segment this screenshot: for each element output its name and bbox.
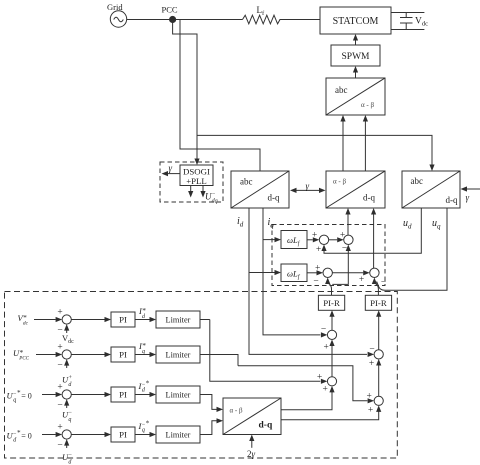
row1 summing junction SR1	[62, 315, 71, 324]
svg-text:+: +	[367, 392, 372, 402]
arrowhead row4 to U5	[217, 418, 224, 423]
arrowhead S1 to S2	[337, 237, 344, 242]
wire SA output to PI-R1	[331, 317, 333, 331]
arrowhead PIR1 to S3	[325, 278, 330, 285]
wire grid to inductor	[127, 19, 243, 21]
arrowhead U5 to SE	[329, 386, 334, 393]
arrowhead PLL down2	[200, 191, 205, 198]
summing junction S1	[319, 235, 328, 244]
svg-text:d-q: d-q	[363, 193, 375, 203]
row3 wire PI to Limiter	[135, 394, 150, 396]
row2 wire PI to Limiter	[135, 354, 150, 356]
STATCOM box	[320, 7, 391, 34]
wire 2gamma input	[251, 441, 253, 448]
svg-text:PI: PI	[119, 350, 127, 360]
arrowhead 2gamma to U5	[249, 435, 254, 442]
arrowheads row refs into summers	[56, 317, 63, 322]
arrowhead SE to SA	[329, 340, 334, 347]
wire U2 output up left	[342, 121, 344, 171]
row2 feedback stub	[66, 366, 68, 369]
SPWM box	[331, 45, 380, 66]
summing junction SE	[327, 377, 336, 386]
wire STATCOM to capacitor bottom	[391, 29, 424, 31]
svg-text:+PLL: +PLL	[186, 176, 207, 186]
row4 wire SR4 to PI	[71, 434, 104, 436]
wire S3 to S4	[332, 272, 363, 274]
svg-text:+: +	[340, 231, 345, 241]
svg-text:PI: PI	[119, 315, 127, 325]
svg-text:−: −	[57, 326, 62, 336]
arrowhead gamma double left	[290, 188, 297, 193]
svg-text:Limiter: Limiter	[166, 431, 191, 440]
outer control dashed enclosure	[5, 292, 398, 459]
svg-text:abc: abc	[335, 85, 348, 95]
svg-text:γ: γ	[169, 163, 173, 173]
wire uq feedforward from U3 to S4	[377, 208, 447, 290]
arrowhead branch to S2	[346, 245, 351, 252]
svg-text:abc: abc	[411, 176, 424, 186]
row1 feedback stub	[66, 331, 68, 334]
row2 PI box	[111, 347, 135, 362]
transform U5 alpha-beta to d-q bottom box	[223, 398, 281, 435]
wire S4 output up into U2	[373, 215, 375, 269]
svg-text:PI-R: PI-R	[323, 298, 340, 308]
arrowhead gamma into U3	[461, 186, 468, 191]
row1 reference wire	[34, 319, 56, 321]
arrowhead U4 to SPWM	[353, 66, 358, 73]
row1 PI box	[111, 312, 135, 327]
wire PLL down output 2	[202, 186, 204, 193]
wire SE output to SA	[331, 346, 333, 377]
svg-text:−: −	[57, 401, 62, 411]
svg-text:+: +	[359, 275, 364, 285]
arrowheads PI to Limiter	[150, 317, 157, 322]
svg-text:+: +	[312, 231, 317, 241]
wire SB output to PI-R2	[378, 317, 380, 350]
arrowhead PCC to U3 top	[429, 165, 434, 172]
arrowhead U5 to SF	[376, 405, 381, 412]
row2 Limiter box	[156, 346, 200, 363]
arrowhead PCC to DSOGI	[194, 159, 199, 166]
PI-R controller box 1	[318, 295, 344, 310]
capacitor Cdc	[400, 13, 413, 30]
grid source G1	[110, 11, 126, 27]
wire PI-R1 output to S3	[328, 283, 332, 295]
wire PI-R1 branch to S2	[332, 249, 348, 284]
row1 limiter output corner	[200, 319, 210, 321]
svg-text:−: −	[321, 325, 326, 335]
svg-text:+: +	[315, 264, 320, 274]
wire gamma into U3	[465, 188, 480, 190]
svg-text:−: −	[313, 277, 318, 287]
arrowhead SB to PIR2	[376, 310, 381, 317]
svg-text:PI: PI	[119, 430, 127, 440]
svg-text:d-q: d-q	[259, 421, 273, 431]
row3 summing junction SR3	[62, 390, 71, 399]
row3 feedback stub	[66, 406, 68, 409]
arrowhead PLL down1	[188, 191, 193, 198]
arrowhead S3 to S4	[363, 270, 370, 275]
feedforward dashed enclosure	[272, 225, 385, 286]
arrowhead wL1 to S1	[313, 237, 320, 242]
svg-text:PI: PI	[119, 390, 127, 400]
row4 PI box	[111, 427, 135, 442]
svg-text:DSOGI: DSOGI	[183, 167, 210, 177]
row3 Limiter box	[156, 386, 200, 403]
svg-text:Limiter: Limiter	[166, 391, 191, 400]
row4 reference wire	[42, 434, 56, 436]
svg-text:PI-R: PI-R	[370, 298, 387, 308]
svg-text:d-q: d-q	[446, 195, 458, 205]
DSOGI dashed enclosure	[160, 162, 223, 202]
svg-text:−: −	[381, 278, 386, 288]
arrowhead S2 to U2	[345, 208, 350, 215]
row3 reference wire	[42, 394, 56, 396]
PI-R controller box 2	[365, 295, 391, 310]
wire PCC horizontal to right transform	[197, 135, 432, 165]
arrowhead U2 to U4 left	[340, 115, 345, 122]
wire U4 to SPWM	[355, 71, 357, 78]
svg-text:−: −	[57, 361, 62, 371]
svg-text:abc: abc	[240, 177, 253, 187]
wire row1 limiter long route to SE	[210, 320, 321, 382]
svg-text:+: +	[316, 245, 321, 255]
wire U5 upper output to SE bottom	[281, 392, 332, 410]
wire SF output to SB	[378, 365, 380, 396]
wire S1 to S2	[329, 239, 338, 241]
arrowhead SPWM to STATCOM	[353, 34, 358, 41]
transform U2 alpha-beta to d-q box middle	[326, 171, 385, 208]
arrowhead id to SB	[368, 352, 375, 357]
arrowhead S4 to U2	[371, 208, 376, 215]
row4 Limiter box	[156, 426, 200, 443]
row1 Limiter box	[156, 311, 200, 328]
arrowhead SF to SB	[376, 359, 381, 366]
row2 limiter output corner	[200, 355, 238, 366]
row1 wire SR1 to PI	[71, 319, 104, 321]
row4 feedback stub	[66, 446, 68, 449]
arrowhead gamma double right	[319, 188, 326, 193]
row4 summing junction SR4	[62, 430, 71, 439]
svg-text:α - β: α - β	[361, 101, 374, 109]
row3 limiter output to U5	[200, 395, 217, 410]
svg-text:Grid: Grid	[107, 2, 123, 12]
wire PCC branch left vertical	[180, 20, 260, 172]
svg-text:+: +	[369, 359, 374, 369]
arrowhead ud to S1	[321, 245, 326, 252]
svg-text:α - β: α - β	[230, 407, 243, 415]
svg-text:α - β: α - β	[333, 178, 346, 186]
row2 reference wire	[36, 354, 56, 356]
row4 limiter output to U5	[200, 421, 217, 435]
row1 wire PI to Limiter	[135, 319, 150, 321]
summing junction S2	[344, 235, 353, 244]
svg-text:d-q: d-q	[268, 193, 280, 203]
wire PI-R2 output to S4	[375, 283, 379, 295]
wire iq branch into wL1	[263, 239, 275, 241]
arrowhead U2 to U4 right	[363, 115, 368, 122]
summing junction S3	[323, 268, 332, 277]
wire S2 output up into U2	[347, 215, 349, 236]
summing junction SA	[327, 330, 336, 339]
svg-text:γ: γ	[306, 181, 310, 191]
arrowhead row3 to U5	[217, 407, 224, 412]
wire ud feedforward from U3 to S1	[324, 208, 421, 253]
wire gamma double arrow between U1 and U2	[294, 189, 321, 191]
transform U1 abc to d-q box left	[231, 171, 289, 208]
DSOGI+PLL box	[180, 165, 213, 186]
wire gamma output of PLL	[166, 173, 180, 175]
wire wL2 to S3	[307, 272, 317, 274]
svg-text:SPWM: SPWM	[342, 52, 371, 62]
gain block wL2	[281, 264, 307, 282]
arrowhead wL2 to S3	[317, 270, 324, 275]
wire STATCOM to capacitor top	[391, 12, 424, 14]
wire U5 lower output to SF bottom	[281, 411, 379, 420]
svg-text:+: +	[57, 383, 62, 393]
svg-text:Limiter: Limiter	[166, 351, 191, 360]
arrowheads summers to PI	[105, 317, 112, 322]
wire inductor to STATCOM	[280, 19, 321, 21]
summing junction SB	[374, 350, 383, 359]
wire wL1 to S1	[307, 239, 313, 241]
wire row2 limiter to SF elbow	[238, 366, 367, 401]
svg-text:+: +	[317, 373, 322, 383]
wire PLL down output 1	[190, 186, 192, 193]
svg-text:2γ: 2γ	[247, 449, 256, 459]
wire U2 output up right	[364, 121, 366, 171]
svg-text:Limiter: Limiter	[166, 316, 191, 325]
svg-text:+: +	[57, 308, 62, 318]
wire PCC branch to DSOGI and right	[173, 20, 197, 160]
inductor Lf zigzag	[243, 15, 281, 24]
svg-text:+: +	[57, 343, 62, 353]
transform U3 abc to d-q box right	[402, 171, 460, 208]
arrowhead iq to wL1	[275, 237, 282, 242]
row2 wire SR2 to PI	[71, 354, 104, 356]
svg-text:+: +	[323, 385, 328, 395]
wire id output vertical	[249, 208, 367, 354]
wire iq output vertical	[263, 208, 320, 335]
svg-text:−: −	[342, 244, 347, 254]
wire id branch into wL2	[249, 272, 275, 274]
svg-text:−: −	[369, 345, 374, 355]
svg-text:γ: γ	[466, 193, 470, 203]
svg-text:+: +	[368, 406, 373, 416]
svg-text:+: +	[57, 423, 62, 433]
svg-text:+: +	[324, 343, 329, 353]
summing junction S4	[370, 268, 379, 277]
arrowheads row feedback into summers	[64, 324, 69, 331]
row3 PI box	[111, 387, 135, 402]
summing junction SF	[374, 396, 383, 405]
arrowhead iq to SA	[321, 332, 328, 337]
wire SPWM to STATCOM	[355, 40, 357, 46]
svg-text:−: −	[57, 441, 62, 451]
arrowhead SA to PIR1	[329, 310, 334, 317]
arrowhead elbow to SF	[368, 398, 375, 403]
arrowhead PIR2 to S4	[372, 278, 377, 285]
row2 summing junction SR2	[62, 350, 71, 359]
arrowhead PLL gamma left	[162, 171, 169, 176]
svg-text:STATCOM: STATCOM	[333, 16, 379, 27]
transform U4 abc to alpha-beta box	[326, 78, 385, 115]
arrowhead id to wL2	[275, 270, 282, 275]
svg-text:PCC: PCC	[162, 5, 178, 15]
row3 wire SR3 to PI	[71, 394, 104, 396]
arrowhead row1 to SE	[321, 379, 328, 384]
node PCC junction dot	[170, 16, 176, 22]
gain block wL1	[281, 231, 307, 249]
row4 wire PI to Limiter	[135, 434, 150, 436]
